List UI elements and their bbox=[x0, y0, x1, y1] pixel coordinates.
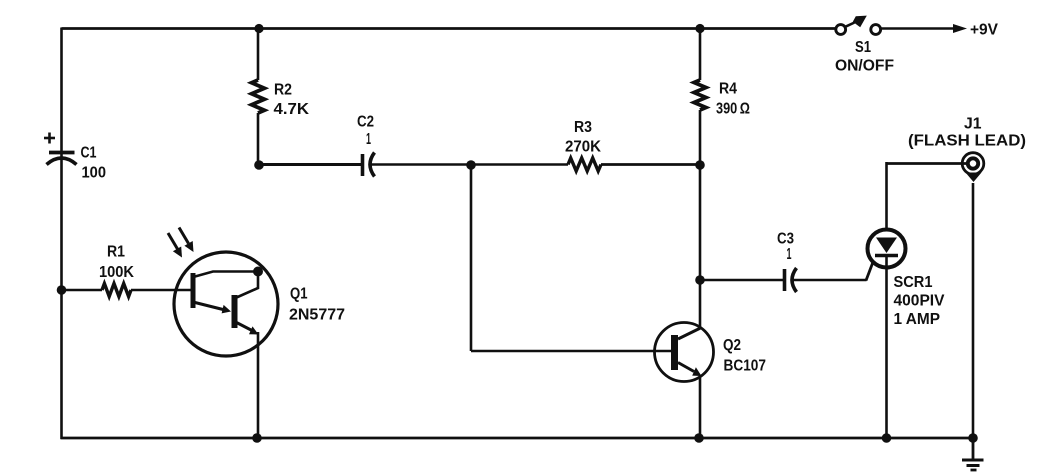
wire R1 to Q1 base bbox=[131, 289, 191, 292]
svg-text:390 Ω: 390 Ω bbox=[716, 101, 750, 118]
wire R4 node to C3 node bbox=[699, 165, 702, 280]
wire bottom rail bbox=[61, 437, 974, 440]
wire left rail bbox=[60, 28, 63, 440]
node junction C3 branch / Q2 collector bbox=[695, 275, 705, 285]
capacitor C1 bbox=[47, 153, 77, 165]
wire C3 to SCR1 gate bbox=[792, 279, 867, 282]
svg-text:ON/OFF: ON/OFF bbox=[835, 58, 894, 75]
node junction Q2 emitter / bottom rail bbox=[694, 433, 704, 443]
supply arrowhead bbox=[953, 24, 967, 33]
svg-text:270K: 270K bbox=[565, 139, 601, 156]
node junction top of R4 line bbox=[695, 24, 704, 33]
node junction Q1 emitter / bottom rail bbox=[252, 433, 262, 443]
wire SCR1 anode to J1 bbox=[886, 162, 969, 165]
wire R2 to C2 node bbox=[257, 113, 260, 166]
wire J1 to bottom rail bbox=[972, 183, 975, 438]
svg-text:Q2: Q2 bbox=[723, 337, 741, 354]
wire SCR1 anode up bbox=[885, 162, 888, 230]
wire C2 to node A bbox=[370, 163, 473, 165]
resistor R3 bbox=[568, 158, 601, 171]
resistor R2 bbox=[252, 80, 265, 113]
phototransistor Q1 bbox=[174, 252, 278, 356]
wire node A to R3 bbox=[471, 163, 568, 165]
svg-text:2N5777: 2N5777 bbox=[289, 307, 345, 324]
svg-text:1: 1 bbox=[366, 131, 371, 148]
node junction C2 / R3 / Q2 base branch bbox=[466, 160, 476, 170]
svg-text:C2: C2 bbox=[357, 114, 374, 131]
wire Q1 emitter to bottom rail bbox=[257, 332, 260, 438]
resistor R4 bbox=[694, 80, 706, 110]
svg-text:100K: 100K bbox=[99, 264, 134, 281]
wire Q2 base row bbox=[471, 350, 672, 353]
svg-text:1: 1 bbox=[787, 246, 792, 263]
svg-text:Q1: Q1 bbox=[290, 286, 308, 303]
svg-text:4.7K: 4.7K bbox=[274, 101, 310, 118]
wire R3 to R4 line bbox=[601, 163, 701, 166]
node junction R4 / R3 bbox=[695, 160, 705, 170]
wire C2 row left bbox=[259, 163, 362, 166]
switch S1 bbox=[836, 16, 881, 35]
wire SCR1 cathode to bottom rail bbox=[885, 256, 888, 438]
svg-text:J1: J1 bbox=[964, 116, 982, 133]
wire S1 to supply arrow bbox=[881, 27, 954, 30]
wire C3 row left bbox=[700, 279, 783, 282]
svg-text:400PIV: 400PIV bbox=[894, 293, 945, 310]
SCR1 bbox=[868, 230, 906, 268]
svg-text:C1: C1 bbox=[81, 145, 97, 162]
svg-text:(FLASH LEAD): (FLASH LEAD) bbox=[908, 133, 1026, 150]
Q1 light arrow 2 bbox=[179, 228, 194, 253]
wire top rail bbox=[62, 27, 837, 30]
wire node to Q2 collector bbox=[699, 280, 702, 328]
svg-text:R3: R3 bbox=[574, 119, 592, 136]
node junction J1 / bottom rail bbox=[968, 433, 978, 443]
svg-text:+9V: +9V bbox=[970, 22, 998, 39]
SCR1 gate lead bbox=[866, 262, 873, 281]
node junction SCR1 cathode / bottom rail bbox=[882, 433, 892, 443]
wire Q2 emitter to bottom rail bbox=[699, 375, 702, 438]
wire node A down to Q2 base row bbox=[470, 165, 473, 351]
capacitor C2 bbox=[363, 153, 375, 177]
C1 polarity plus sign bbox=[44, 133, 55, 144]
node junction left rail / R1 bbox=[57, 285, 67, 295]
svg-text:R2: R2 bbox=[274, 82, 292, 99]
svg-text:SCR1: SCR1 bbox=[894, 274, 933, 291]
wire R2 line upper segment bbox=[257, 29, 260, 81]
capacitor C3 bbox=[785, 268, 797, 292]
svg-text:C3: C3 bbox=[777, 231, 794, 248]
resistor R1 bbox=[102, 284, 131, 297]
svg-text:BC107: BC107 bbox=[724, 358, 767, 375]
ground bbox=[962, 438, 984, 470]
svg-text:R4: R4 bbox=[719, 81, 737, 98]
transistor Q2 bbox=[655, 323, 714, 382]
svg-text:1 AMP: 1 AMP bbox=[894, 311, 941, 328]
svg-text:100: 100 bbox=[82, 165, 107, 182]
svg-text:R1: R1 bbox=[107, 244, 125, 261]
connector J1 terminal bbox=[962, 153, 984, 182]
Q1 light arrow 1 bbox=[168, 233, 182, 258]
node junction top of R2 line bbox=[254, 24, 263, 33]
wire R4 upper segment bbox=[699, 29, 702, 81]
wire R1 left lead bbox=[62, 289, 103, 292]
node junction R2 / C2 row bbox=[254, 160, 264, 170]
svg-text:S1: S1 bbox=[855, 39, 871, 56]
wire R4 to R3 node bbox=[699, 110, 702, 165]
